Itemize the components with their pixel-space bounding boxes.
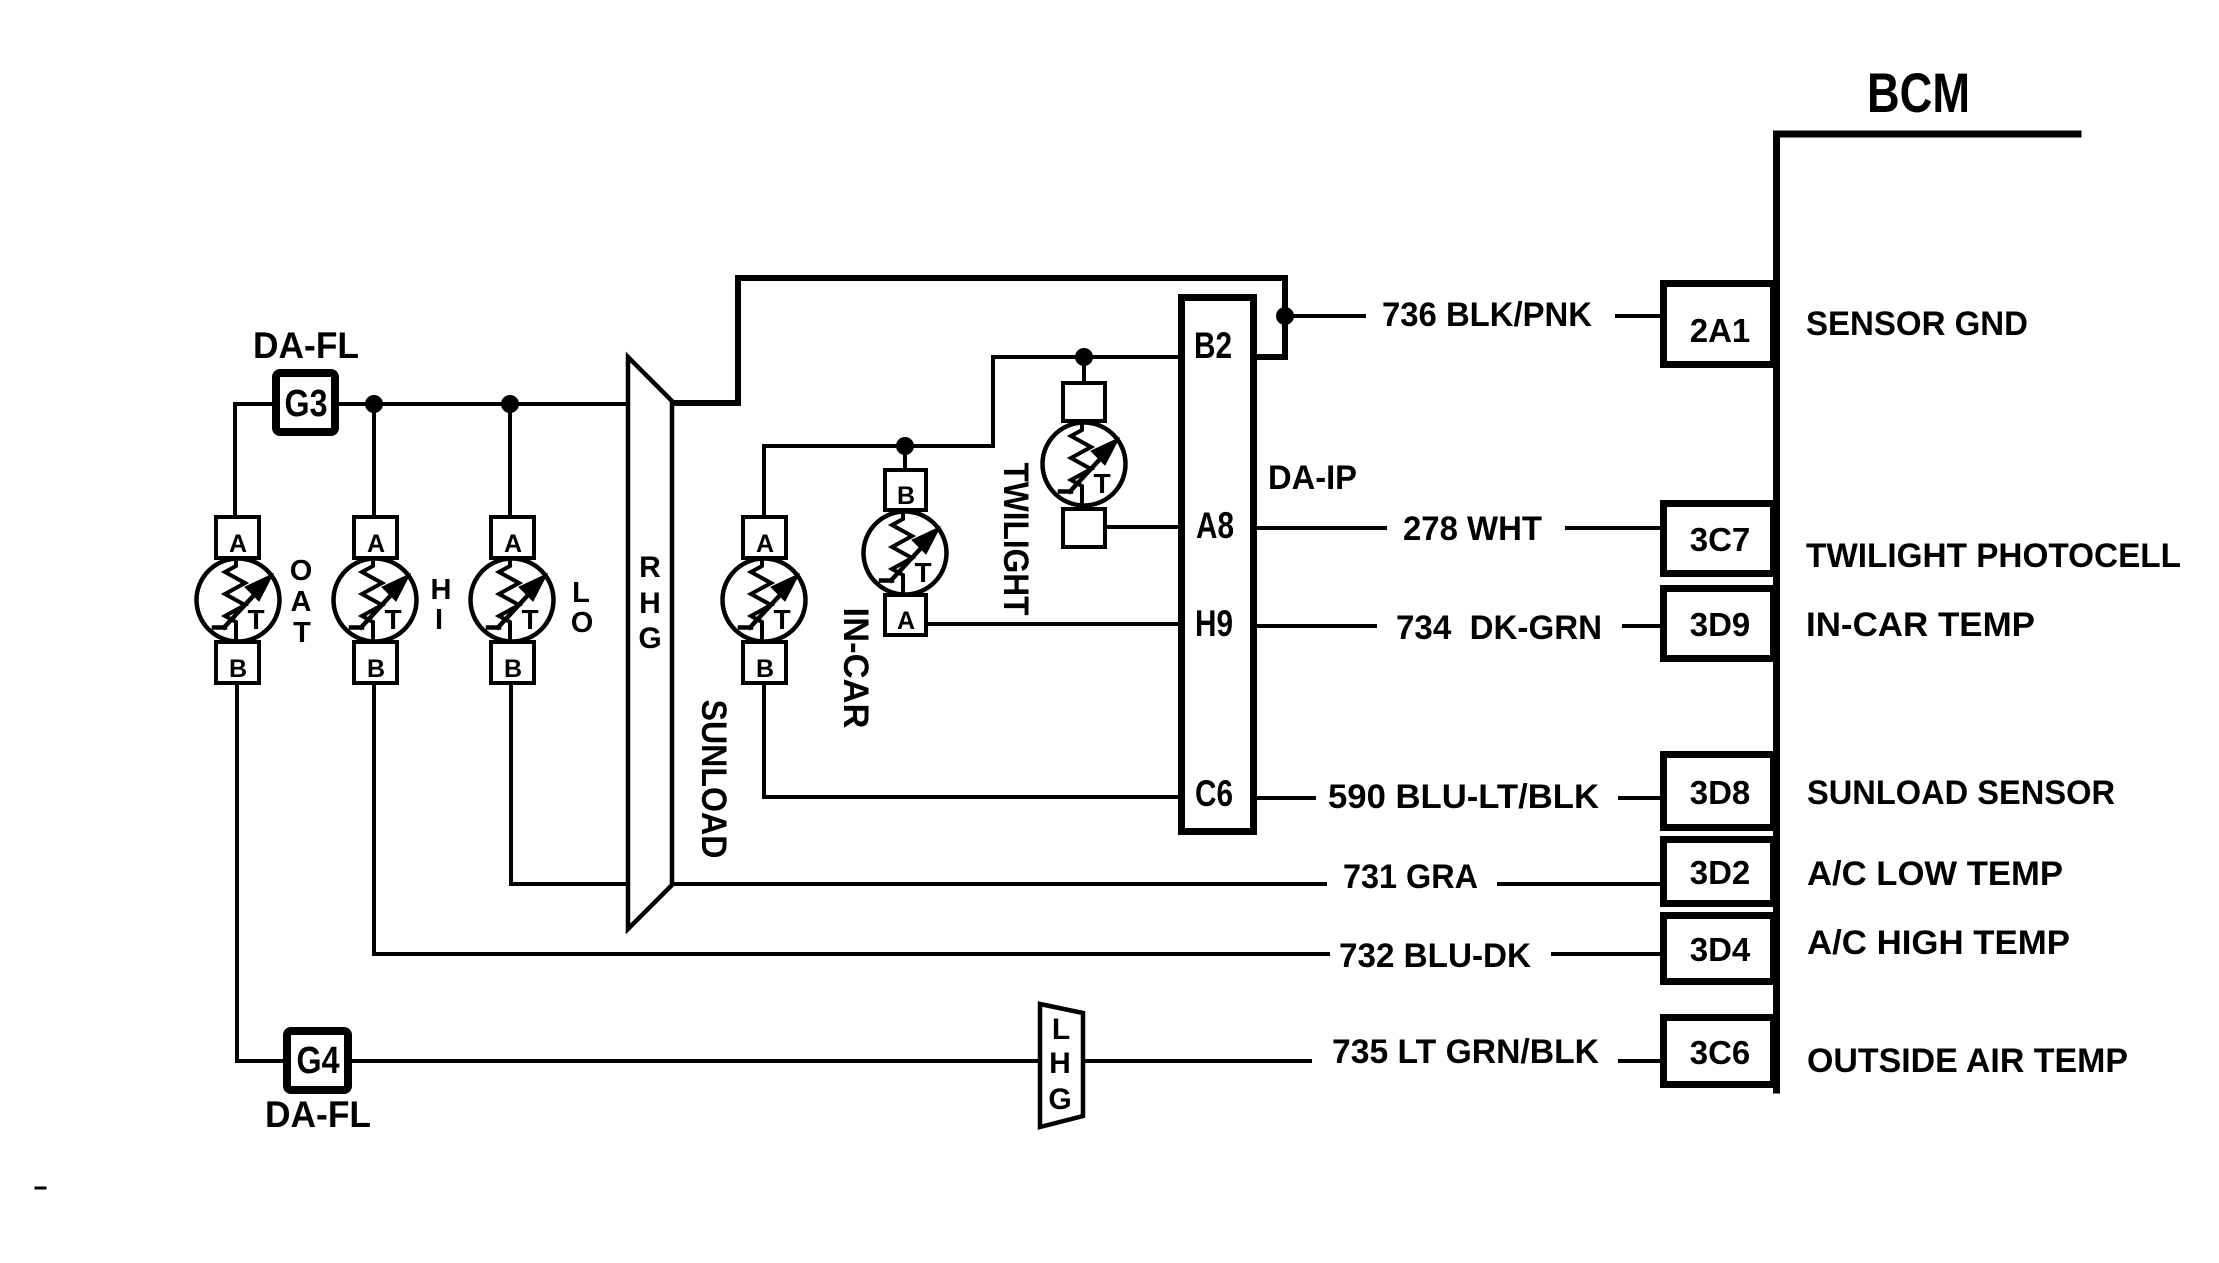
wire 732 BLU-DK run [374,952,1663,956]
svg-text:A/C LOW TEMP: A/C LOW TEMP [1807,855,2063,893]
wire LO drop [508,404,512,517]
wire OAT B to G4 [237,684,283,1061]
pin box 2A1 [1664,284,1774,365]
svg-text:2A1: 2A1 [1690,312,1751,349]
svg-text:3D2: 3D2 [1690,854,1751,891]
wire top bus RHG to DA-IP pin B2 [672,278,1285,403]
junction dot TWILIGHT tap [1075,348,1093,366]
svg-text:H: H [431,574,452,606]
svg-text:L: L [572,577,590,609]
svg-text:TWILIGHT PHOTOCELL: TWILIGHT PHOTOCELL [1806,537,2181,575]
svg-text:G: G [1048,1083,1071,1116]
svg-text:3D4: 3D4 [1690,931,1751,968]
svg-text:A: A [367,530,385,558]
connector LHG [1040,1004,1083,1127]
wire HI drop [372,404,376,517]
svg-text:G4: G4 [297,1040,340,1082]
BCM module boundary [1777,134,2079,1090]
svg-text:DA-FL: DA-FL [265,1094,371,1135]
svg-text:3C6: 3C6 [1690,1034,1751,1071]
svg-text:3C7: 3C7 [1690,521,1751,558]
junction dot LO tap [501,395,519,413]
svg-text:590 BLU-LT/BLK: 590 BLU-LT/BLK [1328,778,1599,816]
svg-text:3D9: 3D9 [1690,606,1751,643]
thermistor OAT [197,517,280,683]
wire HI B to 732 run [372,684,376,954]
wire 736 BLK/PNK segments [1285,314,1663,318]
svg-text:O: O [290,555,313,587]
svg-text:A/C HIGH TEMP: A/C HIGH TEMP [1807,924,2070,962]
stray mark [36,1187,45,1190]
junction dot HI tap [365,395,383,413]
svg-text:A: A [291,586,312,618]
svg-text:735 LT GRN/BLK: 735 LT GRN/BLK [1332,1033,1599,1071]
thermistor IN-CAR [864,470,947,635]
svg-text:A: A [504,530,522,558]
svg-text:B: B [229,655,247,683]
svg-text:DA-IP: DA-IP [1268,459,1357,497]
svg-text:TWILIGHT: TWILIGHT [996,463,1035,616]
connector RHG [628,357,672,929]
junction dot IN-CAR tap [896,437,914,455]
wire 590 BLU-LT/BLK segments [1257,796,1663,800]
junction dot on B2 vertical [1276,307,1294,325]
thermistor SUNLOAD [723,517,806,683]
svg-text:L: L [1052,1013,1070,1046]
svg-text:T: T [293,617,311,649]
svg-text:SUNLOAD SENSOR: SUNLOAD SENSOR [1807,774,2115,812]
svg-text:G3: G3 [285,383,328,425]
svg-text:278 WHT: 278 WHT [1403,510,1542,548]
svg-text:A: A [229,530,247,558]
svg-text:B: B [756,655,774,683]
svg-text:3D8: 3D8 [1690,774,1751,811]
svg-text:B: B [897,482,915,510]
wire 731 GRA run [672,882,1663,886]
svg-text:SUNLOAD: SUNLOAD [694,700,733,859]
pin box 3D4 [1664,916,1774,982]
svg-text:R: R [639,551,661,584]
svg-text:A: A [897,607,915,635]
svg-text:O: O [571,607,594,639]
wire 278 WHT segments [1257,526,1663,530]
wire sensor bus to pin B2 (left side) [764,357,1181,517]
svg-text:H: H [639,587,661,620]
svg-text:734 DK-GRN: 734 DK-GRN [1396,609,1602,647]
svg-text:H: H [1049,1047,1071,1080]
svg-text:731 GRA: 731 GRA [1343,858,1478,896]
wire TWILIGHT to pin A8 [1105,525,1181,529]
pin box 3D9 [1664,589,1774,659]
connector DA-IP [1182,298,1254,832]
pin box 3D2 [1664,840,1774,904]
wire stub to IN-CAR B terminal [903,446,907,470]
thermistor LO [471,517,554,683]
thermistor HI [334,517,417,683]
wire LO B to 731 run [511,684,628,884]
svg-text:I: I [435,604,443,636]
svg-text:B2: B2 [1194,325,1232,366]
svg-text:732 BLU-DK: 732 BLU-DK [1339,937,1531,975]
svg-text:A8: A8 [1196,505,1234,546]
svg-text:B: B [504,655,522,683]
svg-text:BCM: BCM [1867,61,1970,124]
connector G3 [276,373,335,432]
wire 735 LT GRN/BLK run [352,1059,1663,1063]
svg-text:OUTSIDE AIR TEMP: OUTSIDE AIR TEMP [1807,1042,2128,1080]
wire 734 DK-GRN segments [1257,624,1663,628]
svg-text:G: G [638,622,661,655]
pin box 3C6 [1664,1018,1774,1085]
wire G3 ground bus [235,404,628,517]
svg-text:IN-CAR: IN-CAR [836,608,875,729]
svg-text:736 BLK/PNK: 736 BLK/PNK [1382,296,1592,334]
svg-text:IN-CAR TEMP: IN-CAR TEMP [1806,606,2035,644]
thermistor TWILIGHT [1043,383,1126,547]
pin box 3C7 [1664,504,1774,574]
svg-text:SENSOR GND: SENSOR GND [1806,305,2028,343]
svg-text:A: A [756,530,774,558]
svg-text:H9: H9 [1195,603,1233,644]
svg-text:C6: C6 [1195,773,1233,814]
wire SUNLOAD B to pin C6 [764,684,1181,797]
svg-text:B: B [367,655,385,683]
connector G4 [287,1031,348,1090]
wire IN-CAR to pin H9 [926,622,1181,626]
svg-text:DA-FL: DA-FL [253,325,359,366]
pin box 3D8 [1664,755,1774,828]
wire stub to TWILIGHT top terminal [1082,357,1086,383]
